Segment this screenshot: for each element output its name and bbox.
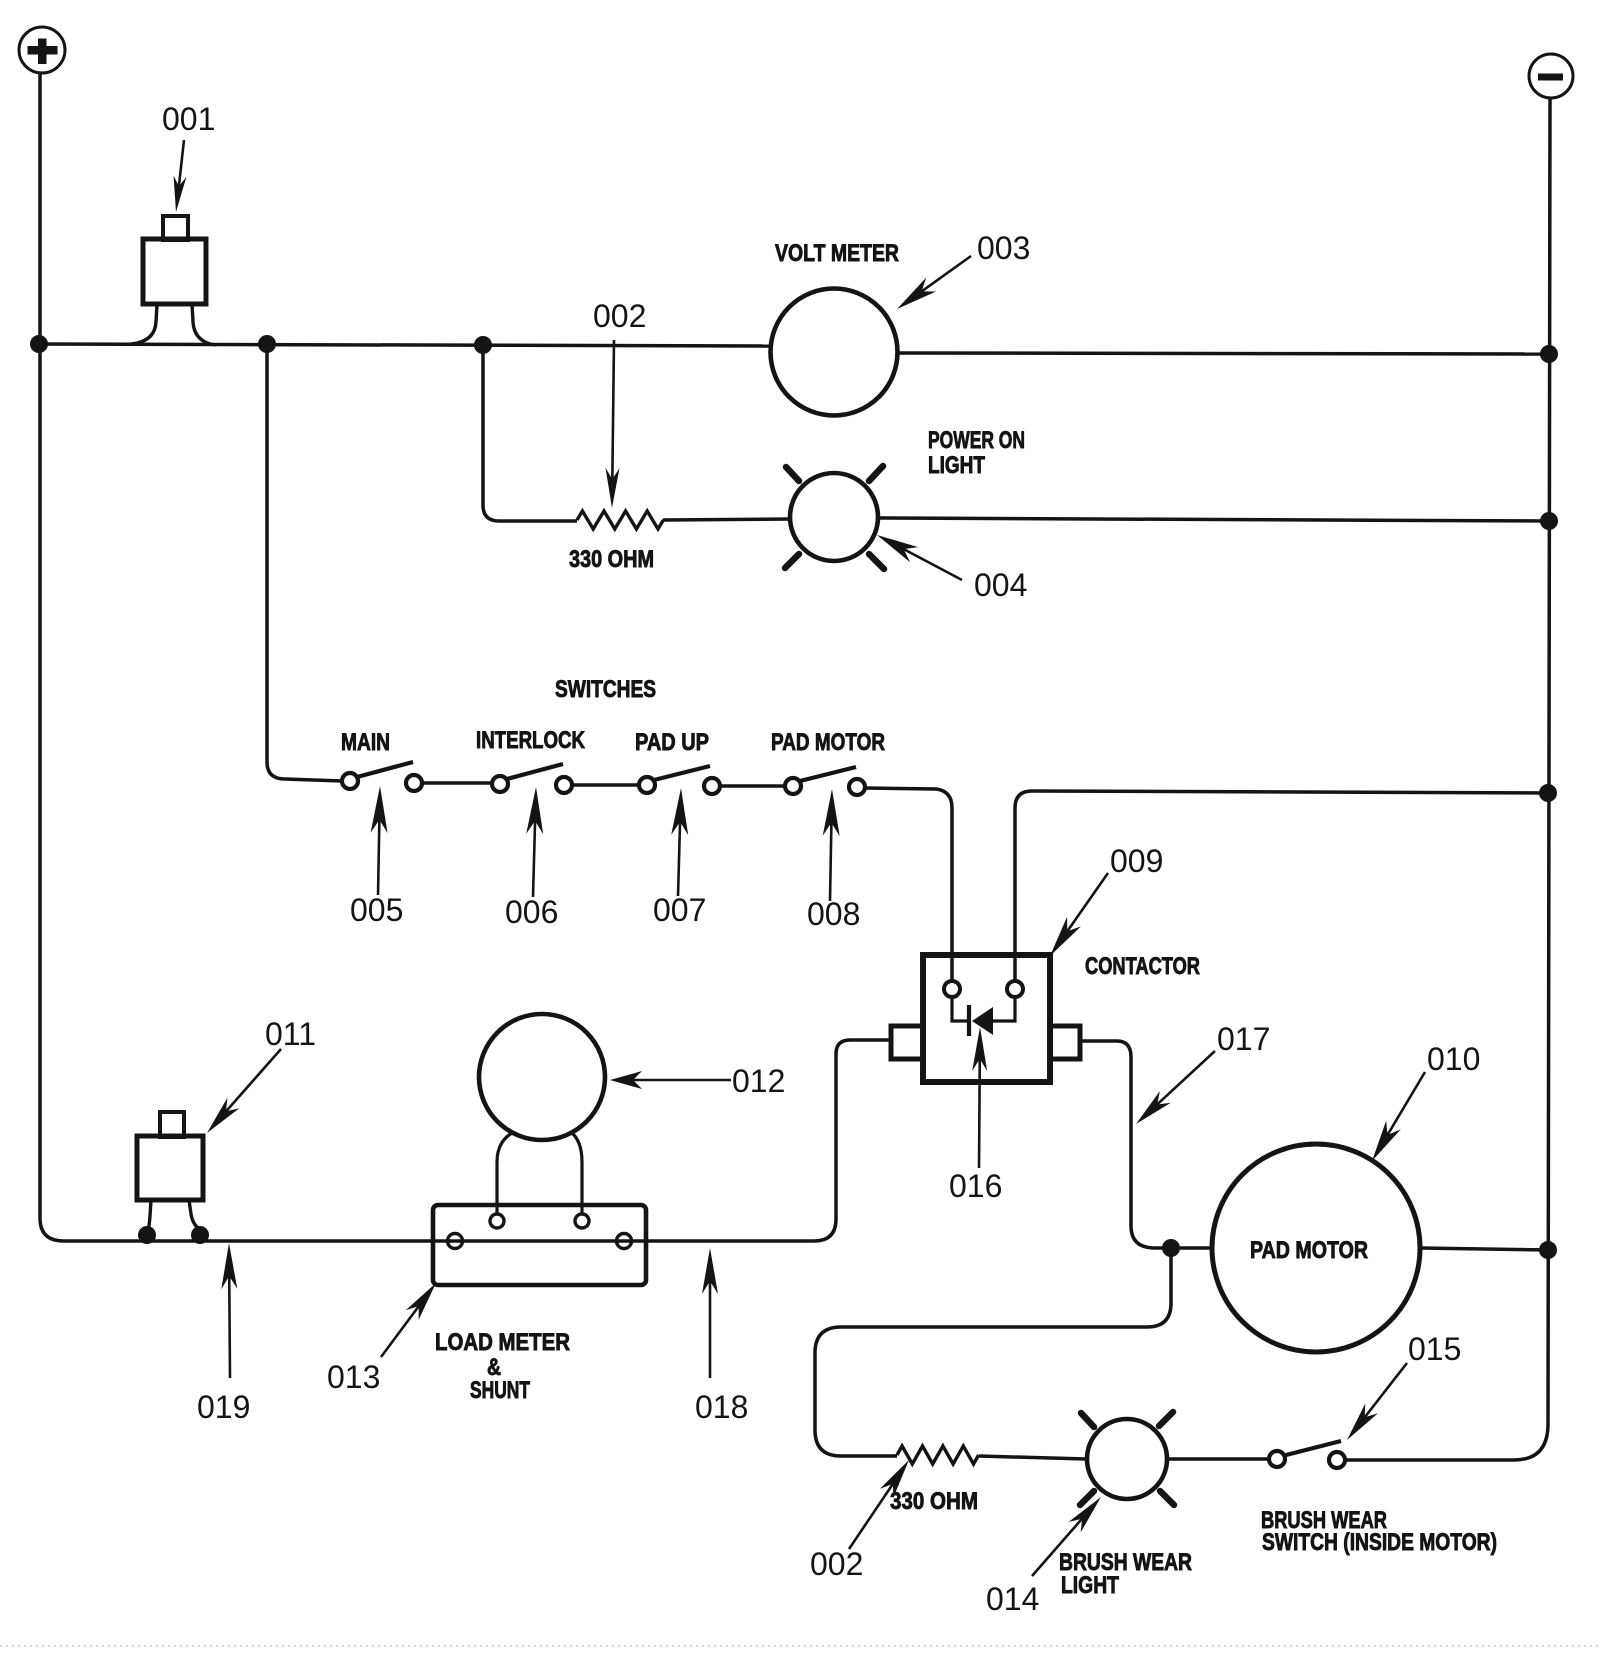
svg-text:012: 012 xyxy=(732,1063,785,1099)
svg-text:002: 002 xyxy=(593,298,646,334)
svg-text:006: 006 xyxy=(505,894,558,930)
svg-text:018: 018 xyxy=(695,1389,748,1425)
svg-text:330 OHM: 330 OHM xyxy=(890,1488,978,1515)
svg-text:LIGHT: LIGHT xyxy=(928,452,985,479)
svg-text:SWITCHES: SWITCHES xyxy=(555,676,656,703)
svg-text:008: 008 xyxy=(807,896,860,932)
svg-text:LIGHT: LIGHT xyxy=(1061,1572,1119,1599)
svg-text:010: 010 xyxy=(1427,1041,1480,1077)
svg-text:017: 017 xyxy=(1217,1021,1270,1057)
svg-text:003: 003 xyxy=(977,230,1030,266)
svg-text:001: 001 xyxy=(162,101,215,137)
svg-text:INTERLOCK: INTERLOCK xyxy=(476,727,586,754)
svg-text:PAD UP: PAD UP xyxy=(635,729,709,756)
svg-text:LOAD METER: LOAD METER xyxy=(435,1329,570,1356)
svg-text:CONTACTOR: CONTACTOR xyxy=(1085,953,1200,980)
svg-text:SHUNT: SHUNT xyxy=(470,1377,530,1404)
svg-text:VOLT METER: VOLT METER xyxy=(775,240,899,267)
svg-text:009: 009 xyxy=(1110,843,1163,879)
svg-text:014: 014 xyxy=(986,1581,1039,1617)
svg-text:005: 005 xyxy=(350,892,403,928)
svg-text:330 OHM: 330 OHM xyxy=(569,546,654,573)
svg-text:002: 002 xyxy=(810,1546,863,1582)
svg-text:SWITCH (INSIDE MOTOR): SWITCH (INSIDE MOTOR) xyxy=(1262,1529,1497,1556)
svg-text:PAD MOTOR: PAD MOTOR xyxy=(771,729,885,756)
svg-text:MAIN: MAIN xyxy=(341,729,390,756)
svg-text:015: 015 xyxy=(1408,1331,1461,1367)
svg-text:007: 007 xyxy=(653,892,706,928)
svg-text:019: 019 xyxy=(197,1389,250,1425)
svg-text:011: 011 xyxy=(265,1016,316,1052)
svg-text:016: 016 xyxy=(949,1168,1002,1204)
svg-text:POWER ON: POWER ON xyxy=(928,427,1025,454)
svg-text:PAD MOTOR: PAD MOTOR xyxy=(1250,1237,1368,1264)
svg-text:013: 013 xyxy=(327,1359,380,1395)
svg-text:004: 004 xyxy=(974,567,1027,603)
